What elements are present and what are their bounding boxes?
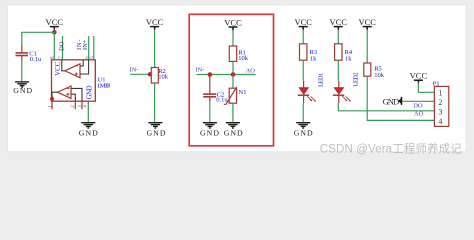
wire LED2 to P1 pin3 (net DO) [338,95,340,103]
svg-text:VCC: VCC [55,61,62,75]
LED2 [333,72,359,101]
wire IN- stub [130,73,150,75]
power port GND (P1) [383,96,402,106]
page background [0,0,474,163]
power port VCC (R1) [224,17,242,30]
wire junction to N1 [232,75,234,89]
svg-text:10k: 10k [238,55,249,62]
pin 4 stub [87,101,89,104]
wire R5 to P1 pin4 (net AO) [367,76,434,120]
connector P1 [433,81,449,127]
wire op-amp B output to pin7 [62,60,65,71]
svg-text:3: 3 [438,107,442,116]
wire GND to P1 pin2 [402,100,434,102]
svg-text:0.1u: 0.1u [216,96,228,103]
svg-text:LED2: LED2 [352,72,359,86]
op-amp B triangle [65,64,80,78]
wire VCC vertical to junction [53,30,55,33]
wire pin4 to ground [87,103,89,122]
resistor R2 10k [151,68,168,84]
node junction R1/N1 [231,72,236,77]
wire C1 to ground [21,61,23,82]
svg-text:VCC: VCC [224,17,242,27]
resistor R5 10k [364,63,385,79]
svg-text:LM393: LM393 [97,82,110,89]
wire R3 to LED1 [302,60,304,80]
wire VCC to R3 [302,30,304,44]
svg-text:DO: DO [413,103,423,110]
wire stub net IN+ (U1 pin 5) [93,36,95,60]
svg-text:IN-: IN- [195,67,204,74]
svg-text:GND: GND [200,128,219,137]
capacitor C1 0.1u [16,46,43,64]
wire LED1 to ground [303,95,305,103]
svg-text:VCC: VCC [146,17,164,27]
svg-text:LED1: LED1 [318,73,325,87]
svg-text:GND: GND [224,128,243,137]
power port VCC (C1/U1) [46,17,64,30]
wire VCC to junction [154,30,156,68]
wire op-amp B plus input to pin5 [80,60,89,74]
power port VCC (R2) [146,17,164,30]
svg-text:2: 2 [438,98,442,107]
pin 2 stub [74,101,76,109]
svg-text:IN+: IN+ [82,39,89,50]
wire VCC to R5 [366,30,368,64]
svg-text:IN-: IN- [130,66,139,73]
wire R1 to junction [232,61,234,74]
node junction VCC/C1/pin8 [52,30,57,35]
wire net IN- / AO horizontal [197,74,256,76]
svg-text:CSDN @Vera工程师养成记: CSDN @Vera工程师养成记 [320,142,463,156]
capacitor C2 0.1u [203,75,228,104]
svg-text:N1: N1 [239,89,247,96]
resistor R3 1k [300,44,318,63]
ground GND (LED1) [294,123,313,138]
selection box [189,14,273,146]
wire op-amp A minus input to pin3 [71,88,82,101]
power port VCC (P1) [410,70,428,83]
op-amp U1 LM393 body [52,60,96,101]
svg-text:GND: GND [383,96,400,106]
svg-text:1: 1 [438,89,442,98]
wire stub net DO (U1 pin 7) [62,36,64,60]
power port VCC (R4) [330,17,348,30]
power port VCC (R5) [358,17,376,30]
svg-text:GND: GND [147,128,166,137]
svg-text:AO: AO [246,68,256,75]
svg-text:VCC: VCC [46,17,64,27]
svg-text:AO: AO [414,111,424,118]
svg-text:GND: GND [13,86,32,95]
svg-text:VCC: VCC [294,17,312,27]
svg-text:10k: 10k [158,74,169,81]
ground GND (R2) [147,123,166,138]
wire VCC junction down to U1 pin 8 [53,32,55,60]
wire stub net IN- (U1 pin 6) [88,36,90,60]
ground GND (C1) [13,82,32,95]
svg-text:VCC: VCC [330,17,348,27]
svg-text:VCC: VCC [410,70,428,80]
wire VCC to R4 [337,30,339,44]
svg-text:GND: GND [79,128,98,137]
svg-text:10k: 10k [374,72,385,79]
svg-text:GND: GND [294,128,313,137]
op-amp A triangle [58,86,72,98]
wire junction to C1 [22,32,55,45]
svg-text:1k: 1k [345,55,352,62]
wire R4 to LED2 [337,60,339,80]
svg-text:VCC: VCC [358,17,376,27]
svg-text:4: 4 [438,117,442,126]
LED1 [298,73,325,102]
ground GND (C2) [200,123,219,138]
node junction on output wire [50,97,54,101]
ground GND (N1) [224,123,243,138]
svg-text:0.1u: 0.1u [30,56,42,63]
ground GND (U1) [79,123,98,138]
svg-text:DO: DO [59,41,66,51]
resistor R1 10k [229,46,248,62]
wire op-amp A output to pin1 [52,92,58,101]
wire R2 to ground [154,83,156,122]
resistor R4 1k [335,44,353,63]
svg-text:1k: 1k [310,55,317,62]
wire op-amp A plus input to pin2 [71,94,75,101]
pin 3 stub [81,101,83,109]
node junction R2/IN- [148,72,152,76]
wire C2 to ground [209,102,211,122]
wire N1 to ground [232,103,234,122]
pin 1 stub [51,101,53,109]
wire VCC to R1 [232,30,234,46]
svg-text:GND: GND [87,85,94,99]
sensor element N1 (varistor style) [224,87,247,104]
power port VCC (R3) [294,17,312,30]
wire op-amp B minus input to pin6 [80,60,83,66]
node junction C2 [208,72,213,77]
wire VCC to P1 pin1 [418,83,434,93]
